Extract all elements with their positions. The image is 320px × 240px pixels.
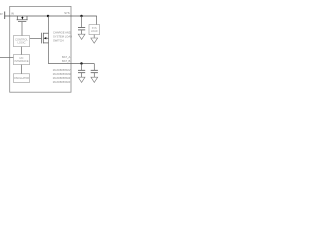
svg-text:I2C: I2C bbox=[20, 57, 24, 60]
node junction BAT caps bbox=[80, 62, 82, 64]
ground GND4 bbox=[91, 77, 98, 82]
transistor Q2 charge FET bbox=[42, 33, 49, 44]
wire SYS rail to Q2 and BAT bbox=[48, 16, 94, 64]
capacitor C2 BAT bbox=[78, 64, 85, 78]
wire I2C interface to oscillator bbox=[18, 65, 25, 74]
node junction SYS cap bbox=[80, 15, 82, 17]
svg-text:SYSTEM LOAD: SYSTEM LOAD bbox=[53, 34, 72, 38]
capacitor C3 BAT bbox=[91, 64, 98, 78]
svg-text:BAT_A: BAT_A bbox=[62, 55, 71, 59]
block I2C INTERFACE bbox=[13, 55, 29, 65]
wire SDA SCL pin bbox=[0, 54, 13, 61]
wire Q1 gate to control logic bbox=[19, 22, 26, 36]
block CONTROL LOGIC bbox=[13, 36, 29, 47]
transistor Q1 input FET bbox=[17, 16, 28, 22]
chip outline U1 bbox=[10, 6, 71, 92]
svg-text:MAX08058S0V: MAX08058S0V bbox=[53, 68, 71, 72]
label SYS pin bbox=[64, 11, 70, 15]
svg-text:MAX08059S0F: MAX08059S0F bbox=[53, 80, 71, 84]
capacitor C1 SYS bbox=[78, 16, 85, 34]
svg-text:MAX08058S0Z: MAX08058S0Z bbox=[53, 76, 71, 80]
label CHARGE AND SYSTEM LOAD SWITCH bbox=[53, 30, 72, 42]
wire VIN-SYS rail bbox=[5, 16, 97, 25]
block SYSTEM LOAD bbox=[89, 25, 100, 35]
svg-text:SYS: SYS bbox=[92, 27, 97, 30]
block OSCILLATOR bbox=[13, 74, 29, 83]
label 5V bbox=[0, 12, 3, 16]
ground GND3 bbox=[78, 77, 85, 82]
wire control logic to I2C interface bbox=[18, 47, 25, 55]
svg-text:IN: IN bbox=[11, 12, 14, 16]
node junction SYS rail bbox=[47, 15, 49, 17]
svg-text:INTERFACE: INTERFACE bbox=[14, 60, 28, 63]
ground GND1 bbox=[78, 34, 85, 39]
svg-text:MAX08059S0W: MAX08059S0W bbox=[53, 72, 72, 76]
wire control logic to Q2 gate bbox=[30, 35, 42, 42]
svg-text:SWITCH: SWITCH bbox=[53, 38, 64, 42]
svg-text:SYS: SYS bbox=[64, 11, 70, 15]
svg-text:OSCILLATOR: OSCILLATOR bbox=[14, 77, 29, 80]
svg-text:BAT_B: BAT_B bbox=[62, 59, 71, 63]
node VIN input source bar bbox=[0, 12, 9, 20]
svg-text:5V: 5V bbox=[0, 12, 3, 16]
ground GND2 bbox=[91, 35, 98, 44]
svg-text:LOAD: LOAD bbox=[91, 30, 98, 33]
label BAT_A BAT_B pins bbox=[62, 55, 71, 63]
svg-text:CHARGE AND: CHARGE AND bbox=[53, 30, 71, 34]
label IN pin bbox=[11, 12, 14, 16]
label device list bbox=[53, 68, 72, 84]
